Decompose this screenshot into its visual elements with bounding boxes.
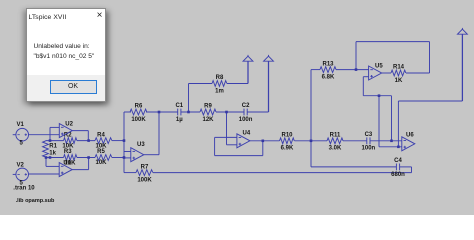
resistor R3 10K bbox=[64, 149, 77, 166]
svg-text:R14: R14 bbox=[393, 65, 405, 71]
svg-text:100K: 100K bbox=[131, 117, 146, 123]
resistor R8 1m bbox=[212, 75, 227, 94]
svg-text:U2: U2 bbox=[65, 121, 73, 127]
wire R8 row right bbox=[227, 83, 248, 85]
wire vert R13 x311 bbox=[310, 70, 312, 167]
wire U6 plus row bbox=[379, 146, 402, 148]
capacitor C3 100n bbox=[362, 132, 376, 152]
junction row1-U4 bbox=[225, 111, 228, 114]
wire V1 out bbox=[29, 134, 60, 136]
svg-text:1µ: 1µ bbox=[176, 117, 183, 123]
resistor R4 10K bbox=[95, 132, 112, 149]
svg-text:100K: 100K bbox=[137, 178, 152, 184]
svg-text:U1: U1 bbox=[63, 161, 71, 167]
wire U4 fb left x214 bbox=[214, 137, 216, 155]
junction rowA-x124 bbox=[123, 139, 126, 142]
wire rowB seg a bbox=[46, 157, 64, 159]
svg-text:C3: C3 bbox=[365, 132, 373, 138]
wire vert U3 out x159 bbox=[158, 112, 160, 155]
junction R13-U5loop bbox=[355, 68, 358, 71]
wire flag1 stem x248 bbox=[247, 61, 249, 83]
wire flag3 stem x462 bbox=[461, 34, 463, 101]
svg-text:U5: U5 bbox=[375, 63, 383, 69]
wire U3 minus stub bbox=[124, 151, 131, 153]
op-amp U2 bbox=[59, 121, 73, 137]
wire V2 out bbox=[29, 173, 60, 175]
junction rowB-x46 bbox=[45, 156, 48, 159]
junction row1-R8 bbox=[187, 111, 190, 114]
wire rowB seg b bbox=[77, 157, 95, 159]
wire R13 row right bbox=[336, 69, 369, 71]
wire vert main left x124 bbox=[123, 112, 125, 173]
wire row1 seg d bbox=[216, 111, 244, 113]
wire R7 row left bbox=[124, 172, 136, 174]
wire node row y96 bbox=[363, 95, 391, 97]
op-amp U6 bbox=[402, 133, 415, 151]
wire flag2 stem x268 bbox=[268, 61, 270, 112]
junction rowB-x124 bbox=[123, 156, 126, 159]
wire row2 seg c bbox=[343, 140, 367, 142]
wire U2 out drop x88 bbox=[87, 131, 89, 141]
resistor R1 1k bbox=[43, 141, 58, 157]
junction rowB-x50 bbox=[49, 156, 52, 159]
wire U1 out bbox=[72, 169, 88, 171]
resistor R2 10K bbox=[62, 132, 77, 149]
wire row2 seg b bbox=[295, 140, 328, 142]
resistor R9 12K bbox=[200, 104, 216, 123]
wire R14 row left bbox=[381, 72, 391, 74]
wire U2 out bbox=[72, 130, 88, 132]
voltage source V1 bbox=[13, 122, 29, 147]
wire row1 seg a bbox=[124, 111, 131, 113]
svg-text:V2: V2 bbox=[17, 162, 25, 168]
wire vert x379 bbox=[378, 96, 380, 147]
resistor R6 100K bbox=[130, 104, 147, 123]
wire vert R8 drop x188 bbox=[188, 84, 190, 113]
wire U5 loop top bbox=[356, 41, 430, 43]
svg-text:C2: C2 bbox=[242, 103, 250, 109]
wire U4 fb top bbox=[215, 136, 237, 138]
wire U3 out bbox=[144, 154, 159, 156]
resistor R7 100K bbox=[136, 164, 153, 183]
svg-text:R9: R9 bbox=[204, 104, 212, 110]
svg-text:R4: R4 bbox=[97, 132, 105, 138]
svg-text:R6: R6 bbox=[135, 104, 143, 110]
resistor R5 10K bbox=[95, 149, 112, 166]
junction U4 out bbox=[262, 140, 265, 143]
capacitor C2 100n bbox=[239, 103, 253, 123]
capacitor C4 680n bbox=[391, 158, 405, 178]
wire R8 row left bbox=[189, 83, 213, 85]
junction y96-x379 bbox=[378, 94, 381, 97]
svg-text:680n: 680n bbox=[391, 172, 405, 178]
svg-text:V1: V1 bbox=[17, 122, 25, 128]
flag arrow 1 bbox=[243, 55, 253, 61]
svg-text:6.8K: 6.8K bbox=[322, 75, 335, 81]
svg-text:U4: U4 bbox=[243, 131, 251, 137]
wire vert x391 bbox=[391, 96, 393, 141]
wire C4 right x411 bbox=[411, 167, 413, 173]
wire U3 plus stub bbox=[124, 157, 131, 159]
svg-text:U6: U6 bbox=[406, 133, 414, 139]
svg-text:.lib opamp.sub: .lib opamp.sub bbox=[16, 198, 55, 204]
wire U4 fb right x262 bbox=[262, 141, 264, 156]
junction rowA-x88 bbox=[87, 139, 90, 142]
svg-text:.tran 10: .tran 10 bbox=[13, 186, 35, 192]
wire vert U5 plus x363 bbox=[362, 77, 364, 96]
flag arrow 3 bbox=[458, 28, 468, 34]
wire U1 out riser x88 bbox=[88, 158, 90, 170]
wire U4 plus in bbox=[227, 144, 237, 146]
wire C4 lower / R7 row bbox=[153, 172, 412, 174]
svg-text:R10: R10 bbox=[281, 133, 293, 139]
wire rowB seg c bbox=[112, 157, 124, 159]
svg-text:C1: C1 bbox=[175, 103, 183, 109]
svg-text:3.0K: 3.0K bbox=[329, 146, 342, 152]
wire U2 minus riser x50 bbox=[49, 127, 51, 140]
svg-text:1k: 1k bbox=[49, 151, 56, 157]
resistor R13 6.8K bbox=[320, 61, 336, 80]
svg-text:R8: R8 bbox=[216, 75, 224, 81]
message dialog LTspice XVII bbox=[26, 8, 106, 102]
resistor R14 1K bbox=[391, 65, 406, 84]
junction row1-R6/U3out bbox=[158, 111, 161, 114]
wire vert x398 bbox=[397, 101, 399, 147]
junction rowB-x88 bbox=[87, 156, 90, 159]
svg-text:5: 5 bbox=[20, 141, 24, 147]
capacitor C1 1&#181; bbox=[175, 103, 183, 123]
junction U6plus-x398 bbox=[397, 146, 400, 149]
wire row2 seg d bbox=[370, 140, 402, 142]
wire R14 row right bbox=[406, 72, 430, 74]
op-amp U3 bbox=[131, 142, 146, 162]
OK button bbox=[50, 80, 97, 94]
svg-text:6.9K: 6.9K bbox=[281, 146, 294, 152]
wire rowA seg a bbox=[46, 140, 64, 142]
svg-text:100n: 100n bbox=[362, 146, 376, 152]
wire U5 plus jog bbox=[363, 76, 368, 78]
svg-text:R3: R3 bbox=[64, 149, 72, 155]
wire row1 seg b bbox=[146, 111, 178, 113]
flag arrow 2 bbox=[264, 55, 274, 61]
wire C4 upper right bbox=[400, 166, 412, 168]
resistor R11 3.0K bbox=[327, 133, 343, 152]
svg-text:12K: 12K bbox=[202, 117, 214, 123]
svg-text:10K: 10K bbox=[95, 160, 107, 166]
wire U4 fb bottom bbox=[215, 155, 263, 157]
voltage source V2 bbox=[13, 162, 29, 186]
wire top right link bbox=[398, 100, 462, 102]
wire U1 minus riser x46 bbox=[45, 158, 47, 167]
svg-text:R7: R7 bbox=[141, 164, 149, 170]
svg-text:U3: U3 bbox=[137, 142, 145, 148]
wire vert U5 loop left x356 bbox=[355, 42, 357, 70]
svg-text:R11: R11 bbox=[330, 133, 341, 139]
svg-text:R1: R1 bbox=[49, 144, 57, 150]
svg-text:R13: R13 bbox=[322, 61, 334, 67]
svg-text:1K: 1K bbox=[395, 78, 403, 84]
wire R13 row left bbox=[311, 69, 320, 71]
svg-text:R5: R5 bbox=[97, 149, 105, 155]
wire row1 seg e bbox=[247, 111, 268, 113]
wire C4 upper left bbox=[311, 166, 396, 168]
op-amp U1 bbox=[59, 163, 72, 177]
op-amp U4 bbox=[237, 131, 251, 148]
op-amp U5 bbox=[369, 63, 384, 80]
wire U1 minus in bbox=[46, 165, 59, 167]
wire rowA seg c bbox=[112, 140, 124, 142]
svg-text:C4: C4 bbox=[394, 158, 402, 164]
svg-text:1m: 1m bbox=[215, 88, 224, 94]
wire rowA seg b bbox=[77, 140, 95, 142]
junction rowA-x50 bbox=[49, 139, 52, 142]
wire vert to U4 x226 bbox=[226, 112, 228, 145]
svg-text:100n: 100n bbox=[239, 117, 253, 123]
junction row2-x391 bbox=[390, 140, 393, 143]
wire row2 seg a bbox=[250, 140, 280, 142]
wire row1 seg c bbox=[181, 111, 200, 113]
wire U2 minus in bbox=[50, 126, 59, 128]
resistor R10 6.9K bbox=[280, 133, 295, 152]
wire vert U5 loop right x429 bbox=[429, 42, 431, 73]
junction row2-x311 bbox=[310, 140, 313, 143]
